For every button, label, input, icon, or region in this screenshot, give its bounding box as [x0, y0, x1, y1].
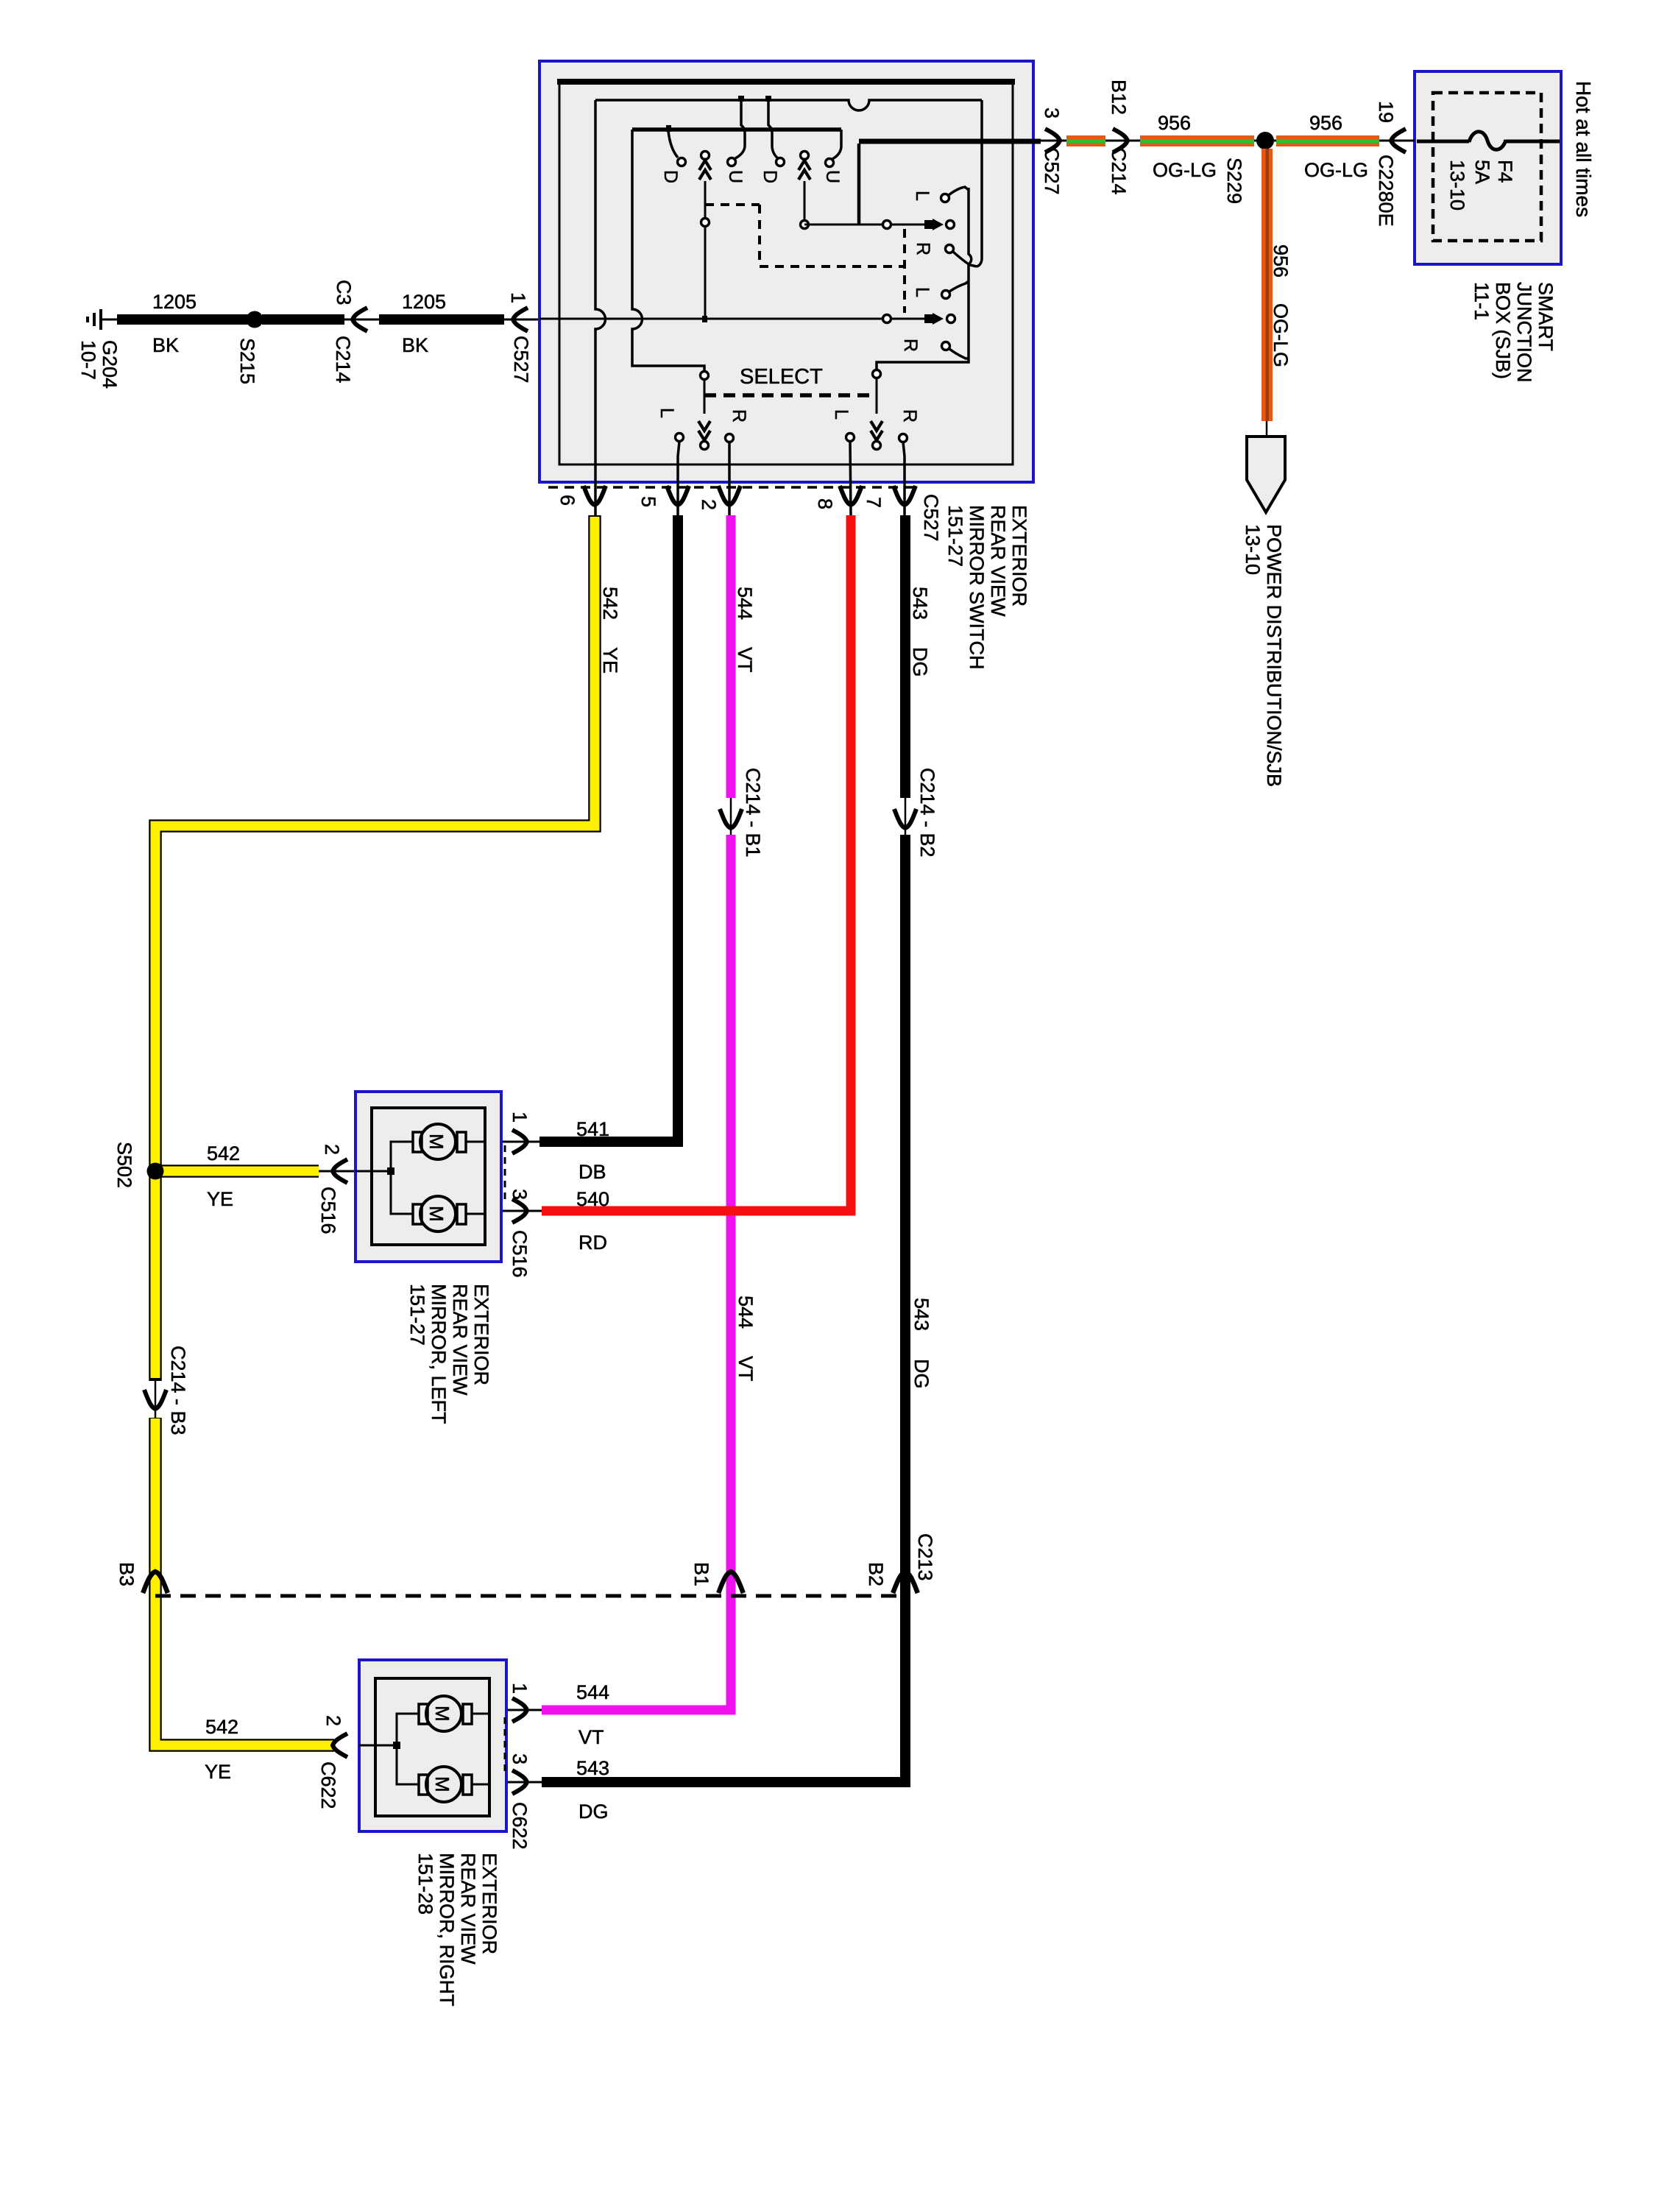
svg-text:MIRROR, RIGHT: MIRROR, RIGHT — [436, 1853, 458, 2007]
switch housing outline (thick top) — [557, 79, 1015, 464]
svg-text:8: 8 — [814, 498, 836, 509]
svg-text:151-27: 151-27 — [944, 505, 966, 567]
svg-text:542: 542 — [599, 587, 621, 620]
svg-text:DG: DG — [578, 1801, 609, 1823]
svg-text:SELECT: SELECT — [740, 365, 823, 389]
connector C214-B1 arrow on violet — [720, 809, 742, 828]
connector C214-B2 arrow on 543 — [894, 809, 916, 828]
contact D2 circle — [776, 158, 785, 166]
left mirror motor M lower — [413, 1196, 466, 1232]
svg-text:10-7: 10-7 — [77, 340, 99, 380]
label POWER DISTRIBUTION/SJB 13-10 — [1242, 524, 1285, 787]
svg-text:13-10: 13-10 — [1242, 524, 1264, 575]
connector 1 C516 arrow — [512, 1130, 527, 1153]
pin 2 arrow — [718, 486, 740, 505]
svg-text:3: 3 — [509, 1189, 531, 1200]
wire 542 YE vertical from pin 6 — [148, 515, 595, 1745]
label 544 VT (upper) — [734, 587, 756, 673]
label Hot at all times — [1572, 81, 1595, 217]
connector B2 arrow at C213 — [893, 1572, 918, 1593]
pin number labels 6 5 2 8 7 C527 — [556, 494, 942, 542]
svg-text:L: L — [657, 408, 677, 418]
line B right leg to contact U2 — [832, 130, 841, 159]
exterior rear view mirror switch box — [539, 61, 1033, 482]
contact U2 circle — [826, 159, 834, 167]
splice S229 dot — [1256, 132, 1274, 149]
connector C527 dashed row — [548, 486, 915, 489]
fixed contact R upper — [946, 245, 977, 267]
svg-text:OG-LG: OG-LG — [1304, 159, 1368, 181]
connector 2 C516 arrow — [333, 1159, 347, 1183]
svg-text:D: D — [660, 170, 681, 183]
svg-text:541: 541 — [576, 1118, 609, 1140]
svg-text:C527: C527 — [510, 336, 532, 384]
label C213 — [914, 1533, 936, 1581]
svg-text:S229: S229 — [1223, 158, 1245, 204]
connector B1 arrow at C213 — [718, 1572, 743, 1593]
svg-text:DB: DB — [578, 1161, 606, 1183]
svg-text:1: 1 — [507, 292, 529, 303]
svg-text:B2: B2 — [865, 1562, 887, 1586]
right mirror inner housing — [375, 1678, 489, 1816]
right mirror motor M upper — [419, 1696, 472, 1731]
label 542 YE (branch) — [207, 1142, 240, 1210]
fixed contact R lower — [942, 342, 969, 359]
label 1 C527 (left) — [507, 292, 532, 384]
label 956 OG-LG (vertical) — [1270, 244, 1292, 367]
exterior rear view mirror right box — [359, 1660, 506, 1831]
svg-text:S215: S215 — [236, 338, 258, 384]
svg-text:151-27: 151-27 — [406, 1284, 428, 1346]
label 540 RD — [576, 1188, 609, 1254]
connector C3 C214 arrow — [353, 308, 367, 331]
right mirror motor M lower — [419, 1767, 472, 1802]
svg-text:EXTERIOR: EXTERIOR — [478, 1853, 500, 1954]
label C622 (right side) — [509, 1802, 531, 1850]
svg-text:6: 6 — [556, 495, 578, 506]
wire 544 VT vertical from pin 2 — [485, 515, 731, 1710]
pin 8 arrow — [840, 486, 862, 505]
wire 542 YE branch to left mirror — [155, 1165, 355, 1178]
select fixed contacts L R right group — [846, 434, 907, 442]
svg-text:EXTERIOR: EXTERIOR — [470, 1284, 492, 1385]
svg-text:BK: BK — [152, 334, 179, 356]
connector 19 C2280E arrow — [1391, 129, 1406, 152]
connector B12 C214 arrow — [1113, 129, 1128, 152]
svg-text:C527: C527 — [1041, 147, 1063, 195]
svg-text:F4: F4 — [1494, 160, 1516, 183]
svg-text:540: 540 — [576, 1188, 609, 1210]
pin 6 wire vertical with crossover hop — [595, 100, 606, 515]
switch pin leads through housing — [678, 442, 905, 515]
label B2 — [865, 1562, 887, 1586]
label 544 VT (at right mirror) — [576, 1681, 609, 1748]
pin 7 arrow — [894, 486, 916, 505]
drop wire to contact U1 — [735, 96, 745, 158]
label B1 — [690, 1562, 712, 1586]
svg-text:S502: S502 — [113, 1142, 135, 1188]
svg-text:OG-LG: OG-LG — [1153, 159, 1217, 181]
svg-text:REAR VIEW: REAR VIEW — [987, 505, 1009, 617]
fixed contact L lower — [942, 281, 969, 299]
label 544 VT (mid) — [735, 1296, 757, 1382]
label C214 - B1 — [742, 768, 764, 858]
svg-text:C214: C214 — [332, 336, 354, 384]
L/R common row 1 — [801, 219, 955, 230]
svg-text:C622: C622 — [509, 1802, 531, 1850]
label 1 (C622 pin) — [509, 1683, 531, 1694]
svg-text:DG: DG — [910, 1359, 933, 1389]
wire 956 OG-LG vertical branch — [1262, 145, 1273, 437]
line B left leg to select arm with hop — [632, 130, 704, 371]
svg-text:13-10: 13-10 — [1446, 160, 1468, 211]
svg-text:YE: YE — [205, 1761, 231, 1783]
label S215 — [236, 338, 258, 384]
label 1205 BK (segment 3) — [402, 291, 446, 356]
svg-text:19: 19 — [1375, 101, 1397, 123]
svg-text:SMART: SMART — [1535, 282, 1557, 351]
movable UD arm M2 — [799, 152, 810, 222]
label SMART JUNCTION BOX (SJB) 11-1 — [1471, 282, 1557, 383]
fixed contact L upper — [941, 187, 969, 202]
svg-text:YE: YE — [207, 1188, 233, 1210]
svg-text:B3: B3 — [116, 1562, 138, 1586]
svg-text:C214 - B2: C214 - B2 — [916, 768, 938, 858]
left mirror internal wiring — [355, 1142, 485, 1214]
svg-text:DG: DG — [909, 647, 931, 677]
fuse F4 5A lead wire — [1417, 140, 1560, 144]
svg-text:1: 1 — [509, 1112, 531, 1123]
label 3 (C516 pin) — [509, 1189, 531, 1200]
svg-text:VT: VT — [578, 1726, 604, 1748]
selector bar 1 — [877, 188, 972, 370]
svg-text:1: 1 — [509, 1683, 531, 1694]
label C516 (right side) — [509, 1230, 531, 1278]
label 2 C516 (left mirror) — [317, 1144, 343, 1234]
drop wire to contact D2 — [765, 96, 778, 158]
svg-text:L: L — [831, 409, 852, 420]
connector 3 C516 arrow — [512, 1199, 527, 1223]
ground G204 symbol — [88, 309, 118, 330]
pin 6 arrow — [584, 486, 606, 505]
label C3 C214 — [332, 280, 355, 384]
svg-text:2: 2 — [322, 1715, 344, 1726]
svg-text:C214: C214 — [1108, 147, 1130, 195]
select arm right — [871, 370, 882, 450]
wire 540 RD vertical from pin 8 — [485, 515, 851, 1211]
labels L R L R (right cluster) — [900, 191, 933, 352]
label 543 DG (at right mirror) — [576, 1757, 609, 1823]
svg-text:5A: 5A — [1471, 160, 1493, 184]
svg-text:R: R — [729, 409, 749, 423]
label B12 C214 — [1108, 79, 1130, 195]
svg-text:544: 544 — [735, 1296, 757, 1329]
label EXTERIOR REAR VIEW MIRROR, RIGHT 151-28 — [414, 1853, 500, 2007]
svg-text:YE: YE — [599, 647, 621, 674]
svg-text:C516: C516 — [509, 1230, 531, 1278]
L/R common row 2 (from pin 1) — [539, 313, 955, 325]
svg-text:542: 542 — [205, 1716, 238, 1738]
svg-text:EXTERIOR: EXTERIOR — [1008, 505, 1030, 607]
SELECT dashed link — [704, 393, 877, 397]
label 3 (C622 pin) — [509, 1753, 531, 1764]
label S229 — [1223, 158, 1245, 204]
fuse F4 element symbol — [1469, 132, 1506, 149]
movable UD arm M1 — [699, 152, 711, 319]
svg-text:3: 3 — [1041, 107, 1063, 119]
svg-text:M: M — [425, 1206, 447, 1222]
svg-text:542: 542 — [207, 1142, 240, 1165]
select arm left — [698, 372, 710, 450]
connector 1 C622 arrow — [512, 1698, 527, 1722]
svg-text:11-1: 11-1 — [1471, 282, 1493, 320]
labels L R L R (select row) — [657, 408, 920, 423]
right mirror internal wiring — [359, 1714, 489, 1784]
wire 1205 BK segment 1 — [117, 314, 248, 325]
svg-text:C2280E: C2280E — [1375, 155, 1397, 227]
exterior rear view mirror left box — [355, 1092, 501, 1262]
svg-text:OG-LG: OG-LG — [1270, 303, 1292, 367]
svg-text:U: U — [725, 170, 746, 183]
svg-text:543: 543 — [576, 1757, 609, 1779]
svg-text:B1: B1 — [690, 1562, 712, 1586]
svg-text:M: M — [431, 1776, 453, 1792]
svg-text:MIRROR SWITCH: MIRROR SWITCH — [966, 505, 988, 669]
svg-text:2: 2 — [698, 499, 720, 510]
wire 541 DB vertical from pin 5 — [485, 515, 678, 1142]
svg-text:M: M — [425, 1134, 447, 1150]
label 956 OG-LG (right segment) — [1304, 112, 1368, 181]
connector 3 C622 arrow — [512, 1770, 527, 1794]
contact D1 lever from line B — [666, 125, 678, 158]
contact U1 circle — [728, 158, 736, 166]
svg-text:544: 544 — [734, 587, 756, 620]
svg-text:BK: BK — [402, 334, 428, 356]
svg-text:544: 544 — [576, 1681, 609, 1703]
svg-text:U: U — [822, 170, 843, 183]
mechanical link dashes (UD arms to selector) — [705, 205, 905, 313]
svg-text:G204: G204 — [99, 340, 121, 389]
svg-text:L: L — [912, 191, 933, 201]
svg-text:956: 956 — [1309, 112, 1342, 134]
svg-text:C527: C527 — [920, 494, 942, 542]
label B3 — [116, 1562, 138, 1586]
bus line B thick — [632, 127, 841, 132]
svg-text:543: 543 — [910, 1298, 933, 1331]
svg-text:1205: 1205 — [402, 291, 446, 313]
label C214 - B3 — [167, 1346, 189, 1435]
svg-text:B12: B12 — [1108, 79, 1130, 115]
svg-text:M: M — [431, 1706, 453, 1722]
svg-text:956: 956 — [1270, 244, 1292, 278]
svg-text:JUNCTION: JUNCTION — [1513, 282, 1535, 383]
svg-text:BOX (SJB): BOX (SJB) — [1492, 282, 1514, 379]
svg-text:C214 - B3: C214 - B3 — [167, 1346, 189, 1435]
svg-text:C213: C213 — [914, 1533, 936, 1581]
labels D U D U — [660, 170, 843, 183]
SELECT label — [740, 365, 823, 389]
select fixed contacts L R left group — [676, 434, 734, 442]
power distribution banner arrow — [1247, 437, 1285, 512]
svg-text:R: R — [900, 339, 921, 352]
label 956 OG-LG (left segment) — [1153, 112, 1217, 181]
svg-text:D: D — [760, 170, 780, 183]
svg-text:7: 7 — [863, 497, 885, 508]
label 3 C527 — [1041, 107, 1063, 195]
svg-text:1205: 1205 — [152, 291, 197, 313]
left mirror motor M upper — [413, 1124, 466, 1159]
svg-text:C516: C516 — [317, 1187, 339, 1234]
svg-text:R: R — [913, 242, 933, 255]
wire 1205 BK segment 3 — [379, 314, 539, 325]
svg-text:REAR VIEW: REAR VIEW — [449, 1284, 471, 1396]
svg-text:C3: C3 — [333, 280, 355, 305]
label 542 YE (bottom) — [205, 1716, 238, 1783]
label C214 - B2 — [916, 768, 938, 858]
label 541 DB — [576, 1118, 609, 1183]
left mirror inner housing — [372, 1108, 485, 1245]
connector pin 3 C527 arrow — [1045, 129, 1060, 152]
svg-text:151-28: 151-28 — [414, 1853, 436, 1915]
svg-text:RD: RD — [578, 1232, 607, 1254]
inner bus line A with hop notch — [595, 100, 982, 110]
splice S502 dot — [147, 1163, 164, 1180]
wire 1205 BK segment 2 — [262, 314, 379, 325]
label 1 (C516 pin) — [509, 1112, 531, 1123]
label EXTERIOR REAR VIEW MIRROR, LEFT 151-27 — [406, 1284, 492, 1424]
label EXTERIOR REAR VIEW MIRROR SWITCH 151-27 — [944, 505, 1030, 669]
pin 5 arrow — [667, 486, 689, 505]
wire 956 OG-LG horizontal — [1041, 135, 1415, 146]
svg-text:VT: VT — [734, 647, 756, 673]
connector pin 1 C527 arrow — [513, 308, 528, 331]
label 1205 BK (segment 1) — [152, 291, 197, 356]
connector C214-B3 arrow on yellow — [144, 1390, 166, 1409]
label 542 YE (upper) — [599, 587, 621, 674]
svg-text:REAR VIEW: REAR VIEW — [457, 1853, 479, 1965]
svg-text:VT: VT — [735, 1356, 757, 1382]
connector 2 C622 arrow — [333, 1734, 347, 1757]
svg-text:C214 - B1: C214 - B1 — [742, 768, 764, 858]
switch feed bus (pin 3) thick line — [859, 141, 1041, 225]
svg-text:956: 956 — [1158, 112, 1191, 134]
svg-text:C622: C622 — [317, 1762, 339, 1809]
fuse cell dashed box — [1433, 93, 1541, 241]
svg-text:Hot at all times: Hot at all times — [1572, 81, 1595, 217]
connector C516 dashed link — [504, 1145, 506, 1204]
label 2 C622 (right mirror) — [317, 1715, 344, 1809]
fuse label F4 5A 13-10 — [1446, 160, 1516, 211]
contact D1 circle — [678, 158, 686, 166]
svg-text:R: R — [899, 409, 920, 423]
svg-text:543: 543 — [909, 587, 931, 620]
connector C622 dashed link — [504, 1717, 506, 1776]
wire 543 DG vertical from pin 7 — [485, 515, 905, 1782]
svg-text:MIRROR, LEFT: MIRROR, LEFT — [428, 1284, 450, 1424]
svg-text:2: 2 — [321, 1144, 343, 1155]
svg-text:L: L — [912, 287, 933, 297]
label S502 — [113, 1142, 135, 1188]
selector bar 2 from line A — [977, 100, 982, 266]
connector B3 arrow at C213 — [143, 1572, 168, 1593]
label 543 DG (upper) — [909, 587, 931, 677]
label 19 C2280E — [1375, 101, 1397, 227]
svg-text:POWER DISTRIBUTION/SJB: POWER DISTRIBUTION/SJB — [1263, 524, 1285, 787]
label G204 10-7 — [77, 340, 121, 389]
splice S215 dot — [247, 311, 263, 328]
svg-text:5: 5 — [637, 496, 659, 507]
harness boundary C213 dashed line — [155, 1594, 905, 1598]
svg-text:3: 3 — [509, 1753, 531, 1764]
label 543 DG (mid) — [910, 1298, 933, 1389]
smart junction box SJB — [1415, 71, 1561, 264]
